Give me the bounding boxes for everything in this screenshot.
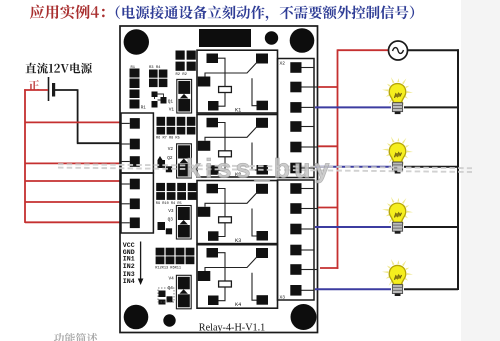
svg-text:K3: K3 bbox=[235, 238, 241, 244]
svg-text:Q4: Q4 bbox=[168, 286, 174, 291]
svg-text:Q3: Q3 bbox=[168, 218, 174, 223]
svg-text:V1: V1 bbox=[169, 108, 175, 113]
svg-text:R12R13 R6R11: R12R13 R6R11 bbox=[155, 267, 181, 271]
svg-text:R2 R2: R2 R2 bbox=[176, 73, 188, 77]
svg-text:X3: X3 bbox=[280, 295, 286, 301]
svg-text:IN4: IN4 bbox=[123, 278, 135, 285]
svg-text:V2: V2 bbox=[168, 147, 174, 152]
svg-text:V4: V4 bbox=[169, 277, 175, 282]
svg-text:Relay-4-H-V1.1: Relay-4-H-V1.1 bbox=[199, 322, 265, 333]
svg-text:R3 R4: R3 R4 bbox=[149, 66, 161, 70]
svg-text:K4: K4 bbox=[235, 302, 241, 308]
svg-text:Q1: Q1 bbox=[168, 100, 174, 105]
svg-text:R6 R7 R8 R5: R6 R7 R8 R5 bbox=[156, 137, 180, 141]
svg-text:Q2: Q2 bbox=[167, 156, 173, 161]
svg-text:IN2: IN2 bbox=[123, 263, 135, 270]
svg-text:R1: R1 bbox=[141, 106, 147, 110]
svg-text:K1: K1 bbox=[235, 108, 241, 114]
svg-text:IN1: IN1 bbox=[123, 256, 135, 263]
svg-text:kiss_buy: kiss_buy bbox=[186, 154, 334, 184]
svg-text:X2: X2 bbox=[280, 61, 286, 67]
svg-text:IN3: IN3 bbox=[123, 271, 135, 278]
svg-text:V3: V3 bbox=[168, 209, 174, 214]
svg-text:R1: R1 bbox=[131, 66, 136, 70]
